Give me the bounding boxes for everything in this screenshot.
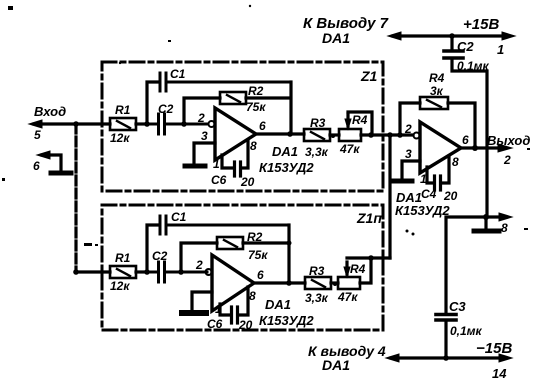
wire node X up to C1: [147, 82, 158, 124]
correction cap C5 pins 1,8 (top op-amp): [222, 141, 248, 176]
node output top: [287, 131, 293, 137]
capacitor C1 (bottom): [160, 216, 289, 234]
svg-text:5: 5: [34, 128, 41, 142]
svg-text:6: 6: [259, 119, 266, 133]
input terminal 5 (Vhod): [29, 120, 76, 128]
svg-text:R1: R1: [115, 103, 131, 117]
svg-text:R3: R3: [310, 116, 326, 130]
+15V rail: [388, 32, 515, 40]
svg-text:К153УД2: К153УД2: [259, 160, 314, 175]
resistor R4 trimmer (bottom) 47k: [338, 258, 390, 289]
node R4 wiper junction (bottom): [368, 255, 374, 261]
node input junction top: [73, 121, 79, 127]
correction cap C6 pins 1,8 (bottom op-amp): [220, 287, 248, 323]
node output bottom: [286, 280, 292, 286]
svg-text:−15В: −15В: [476, 340, 512, 357]
pin 3 wire and ground (bottom op-amp): [182, 292, 212, 313]
svg-text:С1: С1: [171, 210, 187, 224]
svg-text:R2: R2: [247, 230, 263, 244]
svg-text:R4: R4: [350, 262, 366, 276]
pin 8 arrow: [486, 213, 512, 221]
dashed box Z1 (top channel module): [102, 62, 383, 191]
svg-text:14: 14: [492, 366, 507, 381]
labels DA1 K153UD2 (bottom): [259, 297, 314, 328]
svg-text:75к: 75к: [248, 248, 268, 262]
svg-text:С6: С6: [211, 173, 227, 187]
svg-text:0,1мк: 0,1мк: [450, 324, 483, 338]
pin 3 wire and ground (top op-amp): [185, 143, 215, 166]
labels DA1 C4 20 K153UD2 (right): [395, 187, 458, 218]
wire junction to C3: [446, 217, 486, 313]
svg-text:1: 1: [420, 172, 427, 186]
svg-text:20: 20: [238, 318, 253, 332]
svg-text:3: 3: [201, 129, 208, 143]
svg-text:3: 3: [405, 147, 412, 161]
wire C1 down to output node: [289, 82, 292, 134]
resistor R2 (top) 75k: [220, 92, 290, 104]
svg-text:Вход: Вход: [34, 104, 66, 119]
dashed box Z1p (bottom channel module): [102, 205, 383, 330]
svg-text:R1: R1: [115, 251, 131, 265]
node X bottom: [144, 269, 150, 275]
capacitor C1 (top): [160, 73, 291, 91]
pin 2 label and inverting bubble (top op-amp): [209, 121, 215, 127]
resistor R1 (top) 12k: [110, 118, 146, 130]
svg-text:К153УД2: К153УД2: [395, 203, 450, 218]
wire R2 branch up (bottom): [181, 243, 217, 272]
svg-text:3к: 3к: [430, 84, 444, 98]
pin 2 bubble (bottom op-amp): [206, 269, 212, 275]
svg-text:R4: R4: [352, 113, 368, 127]
svg-text:47к: 47к: [339, 142, 360, 156]
svg-text:12к: 12к: [110, 279, 130, 293]
scan speckles: [2, 5, 530, 286]
resistor R4 trimmer (top) 47k: [339, 112, 413, 141]
svg-text:75к: 75к: [246, 100, 266, 114]
correction cap pins 1,8 (right op-amp): [427, 156, 449, 190]
svg-text:3,3к: 3,3к: [305, 145, 329, 159]
-15V rail: [386, 354, 512, 362]
svg-text:1: 1: [213, 157, 220, 171]
resistor R3 (top) 3.3k: [304, 129, 339, 141]
svg-text:DA1: DA1: [322, 357, 350, 373]
ground at decoupling junction: [474, 217, 499, 231]
svg-text:2: 2: [404, 122, 412, 136]
svg-text:С4: С4: [421, 187, 437, 201]
svg-text:47к: 47к: [337, 290, 358, 304]
svg-text:8: 8: [250, 139, 257, 153]
svg-text:20: 20: [443, 189, 458, 203]
svg-text:К153УД2: К153УД2: [259, 313, 314, 328]
svg-text:8: 8: [501, 221, 508, 235]
svg-text:R4: R4: [429, 71, 445, 85]
svg-text:2: 2: [197, 111, 205, 125]
pin 6 output wire (right op-amp): [461, 146, 504, 149]
pin 2 bubble (right op-amp): [414, 133, 420, 139]
resistor R2 (bottom) 75k: [217, 237, 289, 249]
output arrow Vyhod 2: [498, 144, 512, 152]
wire R2 branch up: [184, 98, 220, 124]
svg-text:Z1: Z1: [360, 68, 378, 84]
node label Z1p: [356, 210, 382, 226]
op-amp DA1 (top): [215, 108, 256, 160]
resistor R1 (bottom) 12k: [110, 266, 146, 278]
wire node X up to C1 (bottom): [147, 225, 158, 272]
resistor R3 (bottom) 3.3k: [305, 277, 338, 289]
capacitor C2 (bottom series): [147, 262, 207, 282]
pin 6 output wire (top op-amp): [256, 132, 304, 135]
svg-text:20: 20: [240, 175, 255, 189]
ground terminal 6: [37, 151, 71, 173]
labels DA1 K153UD2 (top): [259, 144, 314, 175]
svg-text:DA1: DA1: [322, 30, 350, 46]
svg-text:Выход: Выход: [487, 133, 530, 148]
svg-text:1: 1: [215, 302, 222, 316]
svg-text:С6: С6: [207, 317, 223, 331]
node input junction bottom: [73, 269, 79, 275]
feedback resistor R4 3k (right): [400, 97, 475, 148]
svg-text:6: 6: [257, 268, 264, 282]
op-amp DA1 (right mixer): [420, 122, 461, 173]
node R4 wiper junction (top): [368, 132, 374, 138]
svg-text:С3: С3: [449, 299, 466, 314]
wire to R1 bottom: [76, 270, 110, 273]
capacitor C2 (top series): [147, 114, 208, 134]
svg-text:+15В: +15В: [463, 16, 499, 33]
svg-text:1: 1: [497, 42, 504, 57]
svg-text:12к: 12к: [110, 131, 130, 145]
svg-text:С2: С2: [158, 102, 174, 116]
svg-text:2: 2: [195, 258, 203, 272]
svg-text:0,1мк: 0,1мк: [457, 59, 490, 73]
pin 6 output wire (bottom op-amp): [254, 281, 305, 284]
node output junction right: [472, 145, 478, 151]
node X top: [144, 121, 150, 127]
svg-text:С1: С1: [170, 67, 186, 81]
svg-text:С2: С2: [457, 39, 474, 54]
wire C1 down to output node (bottom): [287, 225, 290, 283]
pin 3 wire and ground (right op-amp): [392, 161, 420, 181]
svg-text:С2: С2: [152, 249, 168, 263]
op-amp DA1 (bottom): [212, 255, 254, 311]
wire riser from bottom channel: [388, 135, 391, 258]
svg-text:R2: R2: [248, 84, 264, 98]
wire to R1 top: [76, 122, 110, 125]
node riser junction: [387, 132, 393, 138]
svg-text:DA1: DA1: [272, 144, 298, 159]
svg-text:6: 6: [33, 159, 40, 173]
svg-text:8: 8: [452, 155, 459, 169]
svg-text:2: 2: [503, 153, 511, 167]
node label Z1: [360, 68, 378, 84]
svg-text:R3: R3: [309, 264, 325, 278]
svg-text:8: 8: [249, 289, 256, 303]
svg-text:6: 6: [462, 133, 469, 147]
svg-text:Z1п: Z1п: [356, 210, 382, 226]
capacitor C2 decoupling: [444, 36, 487, 217]
capacitor C3: [436, 315, 456, 359]
wire input branch vertical: [74, 124, 77, 272]
svg-text:DA1: DA1: [265, 297, 291, 312]
svg-text:3,3к: 3,3к: [305, 291, 329, 305]
